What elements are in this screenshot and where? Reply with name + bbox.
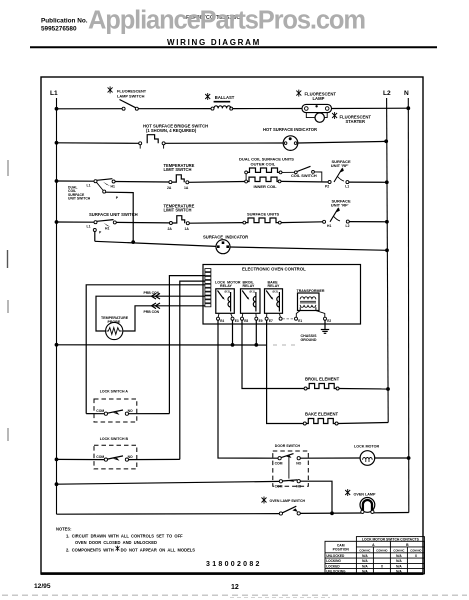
surface unit RF switch 1 bbox=[325, 168, 349, 189]
junction L1/row4 bbox=[55, 220, 59, 224]
EOC connector strip bbox=[205, 269, 211, 307]
lock switch B bbox=[96, 455, 133, 461]
svg-text:LAMP: LAMP bbox=[313, 96, 325, 101]
svg-text:P: P bbox=[99, 231, 102, 235]
svg-text:SURFACE UNITS: SURFACE UNITS bbox=[247, 211, 280, 216]
probe connector plug upper bbox=[152, 293, 161, 299]
svg-text:P: P bbox=[116, 196, 119, 200]
svg-text:N/A: N/A bbox=[362, 559, 368, 563]
lock switch A bbox=[96, 409, 133, 415]
svg-text:(1 SHOWN, 4 REQUIRED): (1 SHOWN, 4 REQUIRED) bbox=[146, 128, 197, 133]
dual coil surface unit switch bbox=[87, 179, 119, 200]
wire L1 vertical bus bbox=[56, 98, 58, 514]
wire lock switch A internal bbox=[129, 413, 170, 415]
svg-text:OVEN LAMP SWITCH: OVEN LAMP SWITCH bbox=[270, 499, 306, 503]
EOC terminal E7 bbox=[265, 317, 268, 320]
svg-text:L1: L1 bbox=[87, 184, 91, 188]
svg-text:H1: H1 bbox=[105, 227, 109, 231]
wire E8 to broil element bbox=[242, 320, 304, 388]
wire row3 segment 5 bbox=[349, 181, 387, 183]
svg-text:SURFACE UNIT SWITCH: SURFACE UNIT SWITCH bbox=[89, 212, 138, 217]
temperature probe bbox=[106, 322, 123, 339]
svg-text:LOCK MOTOR: LOCK MOTOR bbox=[354, 445, 379, 449]
svg-text:X: X bbox=[381, 564, 384, 568]
lock motor M bbox=[360, 451, 375, 466]
svg-text:NO: NO bbox=[128, 409, 133, 413]
wire row3 segment 1 bbox=[57, 180, 95, 182]
svg-text:NC: NC bbox=[296, 484, 301, 488]
svg-text:TRANSFORMER: TRANSFORMER bbox=[297, 289, 325, 293]
svg-text:LAMP SWITCH: LAMP SWITCH bbox=[117, 94, 145, 99]
transformer T1 bbox=[296, 293, 325, 317]
note 2 asterisk bbox=[116, 546, 120, 552]
svg-text:LOCKED: LOCKED bbox=[326, 564, 340, 568]
svg-text:318002082: 318002082 bbox=[206, 561, 262, 568]
svg-text:N/A: N/A bbox=[396, 559, 402, 563]
EOC terminal E6 bbox=[279, 317, 282, 320]
surface unit switch bbox=[87, 220, 117, 235]
junction L1 / feed bus bbox=[55, 343, 59, 347]
svg-text:N/A: N/A bbox=[362, 554, 368, 558]
svg-text:UNLOCKING: UNLOCKING bbox=[326, 570, 346, 574]
wire top rail L1 segment bbox=[57, 108, 123, 110]
svg-text:B: B bbox=[406, 543, 409, 547]
svg-text:1A: 1A bbox=[184, 186, 189, 190]
svg-text:COM-NO: COM-NO bbox=[376, 548, 387, 552]
frame bottom thick edge bbox=[41, 572, 423, 575]
EOC terminal E3 bbox=[231, 317, 234, 320]
wire row2 middle bbox=[165, 142, 283, 144]
door switch box bbox=[273, 451, 309, 486]
wire row4 segment 3 bbox=[189, 222, 243, 225]
wire oven lamp switch to lamp bbox=[300, 512, 361, 514]
wire E9 to feed bus bbox=[255, 320, 257, 345]
wire connector pin to lock switch A NO bbox=[169, 276, 205, 414]
svg-text:COM: COM bbox=[275, 461, 283, 465]
wire row3 segment 4 bbox=[281, 180, 328, 183]
wire feed bus faint dashes bbox=[273, 344, 296, 346]
svg-text:RELAY: RELAY bbox=[220, 284, 232, 288]
svg-text:COM-NC: COM-NC bbox=[359, 548, 370, 552]
wire E6 to E1 faint bbox=[282, 318, 293, 320]
wire row4 segment 5 bbox=[349, 221, 387, 223]
junction L1/row2 bbox=[55, 141, 59, 145]
wire row3 P drop bbox=[106, 192, 134, 242]
wire row4 segment 4 bbox=[281, 221, 323, 224]
svg-text:NOTES:: NOTES: bbox=[56, 527, 71, 532]
wire connector pin to lock switch A COM bbox=[86, 285, 205, 414]
svg-text:L2: L2 bbox=[346, 224, 350, 228]
svg-text:(K1): (K1) bbox=[250, 290, 256, 294]
wire oven lamp to N bbox=[374, 512, 409, 514]
oven lamp bbox=[360, 498, 375, 514]
EOC terminal E1 bbox=[295, 317, 298, 320]
wire L1 to oven lamp switch bbox=[57, 513, 280, 516]
svg-text:RELAY: RELAY bbox=[243, 284, 255, 288]
svg-text:AppliancePartsPros.com: AppliancePartsPros.com bbox=[88, 7, 366, 35]
junction broil / L2 bbox=[386, 387, 390, 391]
schematic border frame bbox=[41, 77, 423, 574]
svg-text:RELAY: RELAY bbox=[268, 284, 280, 288]
wire into lock switch A bbox=[86, 413, 104, 415]
door switch link bar bbox=[288, 456, 290, 478]
oven lamp switch asterisk bbox=[262, 497, 267, 504]
wire row4 segment 1 bbox=[57, 221, 95, 223]
svg-text:E2: E2 bbox=[327, 319, 331, 323]
wire connector pin to lock switch B NO bbox=[180, 281, 205, 459]
wire into lock switch B bbox=[57, 458, 105, 460]
svg-text:H1: H1 bbox=[111, 185, 115, 189]
svg-text:BROIL ELEMENT: BROIL ELEMENT bbox=[305, 376, 340, 381]
svg-text:N/A: N/A bbox=[396, 564, 402, 568]
hot surface bridge switch bbox=[139, 135, 165, 149]
svg-text:E4: E4 bbox=[220, 319, 224, 323]
chassis ground wire bbox=[324, 320, 326, 329]
electronic oven control box bbox=[203, 265, 361, 325]
svg-text:1A: 1A bbox=[185, 227, 190, 231]
svg-text:E9: E9 bbox=[259, 319, 263, 323]
header underline bbox=[30, 46, 437, 48]
svg-text:2. COMPONENTS WITH DO: 2. COMPONENTS WITH DO NOT APPEAR ON ALL … bbox=[66, 548, 195, 553]
svg-text:LOCK SWITCH B: LOCK SWITCH B bbox=[100, 437, 129, 441]
svg-text:NO: NO bbox=[128, 455, 133, 459]
junction surface indicator / L2 bbox=[385, 248, 389, 252]
wire door switch NC to oven lamp row bbox=[300, 481, 332, 513]
table header text bbox=[333, 538, 420, 552]
wire row2 right bbox=[298, 141, 386, 143]
surface units resistor bbox=[243, 218, 281, 224]
junction P drops bbox=[131, 240, 135, 244]
svg-text:5995276580: 5995276580 bbox=[41, 26, 77, 33]
svg-text:(K3): (K3) bbox=[225, 290, 231, 294]
svg-text:COM: COM bbox=[96, 409, 104, 413]
surface unit RF switch 2 bbox=[323, 207, 350, 228]
surface indicator lamp bbox=[216, 240, 230, 254]
scan artifact bottom dashed line bbox=[2, 594, 467, 596]
probe connector plug lower bbox=[152, 303, 161, 309]
EOC terminal E8 bbox=[241, 317, 244, 320]
svg-text:UNIT 'RF': UNIT 'RF' bbox=[331, 163, 349, 168]
svg-text:LOCK MOTOR SWITCH CONTACTS: LOCK MOTOR SWITCH CONTACTS bbox=[362, 538, 420, 542]
temperature limit switch 1 bbox=[167, 175, 189, 190]
svg-text:OVEN LAMP: OVEN LAMP bbox=[354, 492, 376, 496]
svg-text:OUTER COIL: OUTER COIL bbox=[251, 161, 276, 166]
svg-text:COM: COM bbox=[275, 484, 283, 488]
junction E3 / feed bus bbox=[231, 343, 235, 347]
wire L1 to door switch lower COM bbox=[57, 481, 280, 484]
fluorescent starter loop wires bbox=[306, 113, 327, 118]
bake element bbox=[303, 419, 338, 426]
oven lamp switch bbox=[279, 506, 300, 515]
svg-text:L1: L1 bbox=[345, 185, 349, 189]
header publication number bbox=[41, 18, 88, 33]
EOC terminal E9 bbox=[255, 317, 258, 320]
svg-text:(K2): (K2) bbox=[273, 290, 279, 294]
svg-text:N/A: N/A bbox=[362, 564, 368, 568]
wire E3 to feed bus bbox=[232, 320, 234, 345]
svg-text:H1: H1 bbox=[327, 224, 331, 228]
svg-text:N/A: N/A bbox=[396, 570, 402, 574]
wire probe lower bbox=[123, 306, 205, 331]
junction L1 / door switch lower bbox=[55, 482, 59, 486]
svg-text:LIMIT SWITCH: LIMIT SWITCH bbox=[164, 208, 192, 213]
svg-text:SURFACE INDICATOR: SURFACE INDICATOR bbox=[203, 234, 248, 239]
svg-text:2A: 2A bbox=[168, 227, 173, 231]
svg-text:COM-NO: COM-NO bbox=[410, 548, 421, 552]
svg-text:UNIT 'RF': UNIT 'RF' bbox=[331, 203, 349, 208]
wire L1 feed bus bbox=[57, 344, 267, 346]
table data rows bbox=[326, 554, 346, 574]
svg-text:LIMIT SWITCH: LIMIT SWITCH bbox=[164, 167, 192, 172]
ballast L1 bbox=[211, 102, 233, 110]
wire row4 P drop bbox=[94, 232, 96, 242]
fluorescent lamp switch bbox=[120, 100, 139, 111]
svg-text:GROUND: GROUND bbox=[301, 338, 317, 342]
junction row4 / L2 bbox=[385, 220, 389, 224]
svg-text:N/A: N/A bbox=[396, 554, 402, 558]
svg-text:PRB CON: PRB CON bbox=[144, 310, 160, 314]
junction door switch NC riser / lamp row bbox=[330, 511, 334, 515]
EOC terminal E2 bbox=[324, 317, 327, 320]
svg-text:E1: E1 bbox=[298, 319, 302, 323]
svg-text:WIRING DIAGRAM: WIRING DIAGRAM bbox=[167, 38, 261, 47]
svg-text:POSITION: POSITION bbox=[333, 548, 350, 552]
wire lock switch B to riser bbox=[129, 458, 180, 460]
wire bake element to L2 bbox=[338, 423, 388, 424]
door switch upper contacts bbox=[275, 454, 302, 466]
wire top rail segment 4 bbox=[332, 107, 409, 109]
junction lock motor / N bbox=[407, 456, 411, 460]
broil relay K1 bbox=[241, 289, 261, 317]
svg-text:Publication No.: Publication No. bbox=[41, 18, 88, 25]
fluorescent starter bbox=[315, 113, 324, 122]
svg-text:BAKE ELEMENT: BAKE ELEMENT bbox=[305, 412, 338, 417]
coil switch bbox=[282, 166, 322, 181]
wire E4 to door switch COM bbox=[218, 320, 279, 458]
broil element bbox=[304, 384, 339, 391]
junction L1/top rail bbox=[55, 107, 59, 111]
wire N vertical bus bbox=[407, 98, 410, 513]
svg-text:N/A: N/A bbox=[362, 570, 368, 574]
wire top rail segment 3 bbox=[233, 108, 302, 110]
svg-text:LOCKING: LOCKING bbox=[326, 559, 341, 563]
lock motor switch contacts table bbox=[325, 537, 424, 574]
wire row3 segment 3 bbox=[189, 181, 245, 184]
fluorescent starter asterisk bbox=[332, 112, 337, 119]
svg-text:P2: P2 bbox=[325, 185, 329, 189]
wire lock motor to N bbox=[375, 457, 409, 459]
scan artifact left edge marks bbox=[7, 160, 10, 441]
svg-text:L1: L1 bbox=[50, 90, 58, 97]
junction L1 / lock switch B bbox=[55, 458, 59, 462]
junction L1/row3 bbox=[55, 179, 59, 183]
svg-text:12: 12 bbox=[231, 584, 239, 591]
lock switch B box bbox=[94, 445, 137, 469]
temperature limit switch 2 bbox=[168, 216, 190, 231]
svg-text:COM: COM bbox=[96, 455, 104, 459]
hot surface indicator lamp bbox=[283, 136, 298, 151]
wire surface indicator row bbox=[95, 241, 387, 250]
svg-text:ELECTRONIC OVEN CONTROL: ELECTRONIC OVEN CONTROL bbox=[242, 267, 306, 272]
svg-text:UNLOCKED: UNLOCKED bbox=[326, 554, 345, 558]
dual coil surface unit resistors bbox=[245, 168, 282, 183]
svg-text:L1: L1 bbox=[87, 225, 91, 229]
wire door switch NO to lock motor bbox=[300, 457, 360, 459]
svg-text:INNER COIL: INNER COIL bbox=[254, 184, 278, 189]
wire row3 segment 2 bbox=[115, 181, 169, 184]
junction top rail / N bbox=[406, 106, 410, 110]
wire row2 left bbox=[57, 142, 140, 145]
junction E9 / feed bus bbox=[254, 343, 258, 347]
lock motor relay K3 bbox=[216, 289, 235, 317]
wire probe upper bbox=[96, 296, 205, 331]
svg-text:L2: L2 bbox=[383, 90, 391, 97]
door switch lower contacts bbox=[275, 480, 302, 489]
wire E7 to bake element bbox=[267, 320, 304, 423]
svg-text:DOOR SWITCH: DOOR SWITCH bbox=[275, 444, 301, 448]
svg-text:NO: NO bbox=[296, 461, 301, 465]
chassis ground symbol bbox=[321, 330, 329, 334]
fluorescent lamp asterisk bbox=[296, 90, 301, 97]
svg-text:LOCK SWITCH A: LOCK SWITCH A bbox=[100, 390, 129, 394]
dual coil surface unit switch label bbox=[68, 186, 91, 201]
fluorescent lamp FL1 bbox=[302, 104, 332, 112]
wire row4 segment 2 bbox=[116, 221, 169, 224]
svg-text:N: N bbox=[404, 90, 409, 97]
svg-text:BALLAST: BALLAST bbox=[215, 95, 235, 100]
svg-text:PRB CON: PRB CON bbox=[144, 291, 160, 295]
svg-text:UNIT SWITCH: UNIT SWITCH bbox=[68, 196, 91, 200]
fluorescent lamp switch asterisk bbox=[108, 86, 113, 93]
svg-text:E7: E7 bbox=[269, 319, 273, 323]
svg-text:E3: E3 bbox=[235, 319, 239, 323]
ballast asterisk bbox=[205, 93, 210, 100]
bake relay K2 bbox=[265, 289, 283, 317]
wire L2 vertical bus bbox=[387, 98, 389, 423]
svg-text:HOT SURFACE INDICATOR: HOT SURFACE INDICATOR bbox=[263, 127, 317, 132]
wire top rail segment 2 bbox=[138, 108, 212, 110]
svg-text:A: A bbox=[372, 543, 375, 547]
junction row2 / L2 bbox=[384, 139, 388, 143]
svg-text:2A: 2A bbox=[167, 186, 172, 190]
junction row3 / L2 bbox=[385, 180, 389, 184]
svg-text:X: X bbox=[415, 554, 418, 558]
lock switch A box bbox=[94, 399, 137, 422]
svg-text:12/95: 12/95 bbox=[34, 583, 51, 590]
EOC terminal E4 bbox=[217, 317, 220, 320]
oven lamp asterisk bbox=[345, 489, 350, 496]
svg-text:OVEN DOOR CLOSED AND UNLOC: OVEN DOOR CLOSED AND UNLOCKED bbox=[75, 540, 157, 545]
svg-text:COM-NC: COM-NC bbox=[393, 548, 404, 552]
svg-text:E8: E8 bbox=[244, 319, 248, 323]
wire broil element to L2 bbox=[339, 388, 388, 391]
svg-text:1. CIRCUIT DRAWN WITH ALL: 1. CIRCUIT DRAWN WITH ALL CONTROLS SET T… bbox=[66, 534, 183, 539]
svg-text:STARTER: STARTER bbox=[346, 119, 365, 124]
